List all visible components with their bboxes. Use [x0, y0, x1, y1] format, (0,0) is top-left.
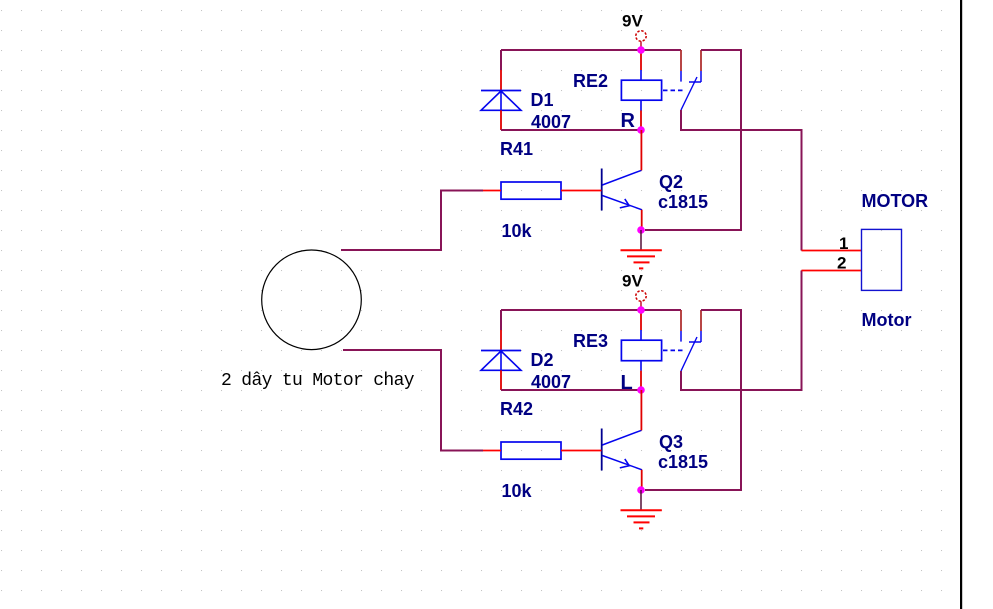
svg-text:D1: D1: [531, 90, 554, 110]
svg-text:Q3: Q3: [659, 432, 683, 452]
diode D2: [481, 351, 521, 371]
relay RE2 blade: [681, 77, 697, 110]
wire 9V rail bottom: [501, 309, 681, 311]
wire RE2 blade to motor pin1: [681, 110, 802, 251]
resistor R42: [483, 442, 602, 459]
svg-text:Q2: Q2: [659, 172, 683, 192]
transistor Q2: [602, 169, 642, 211]
wire Q2 emitter pin: [641, 210, 643, 230]
ground below Q2: [621, 230, 662, 268]
svg-text:R: R: [621, 110, 636, 132]
svg-text:c1815: c1815: [658, 452, 708, 472]
relay coil RE3: [621, 330, 684, 371]
diode D1: [481, 91, 521, 111]
svg-text:RE2: RE2: [573, 71, 608, 91]
wire input B from circle to R42: [343, 350, 483, 451]
svg-text:RE3: RE3: [573, 331, 608, 351]
wire Q2 collector pin: [640, 130, 642, 170]
svg-text:Motor: Motor: [862, 310, 912, 330]
relay RE3 contact A pin: [680, 310, 682, 342]
relay RE3 contact B pin: [689, 310, 701, 342]
junction node L: [637, 386, 645, 394]
wire Q3 collector pin: [640, 390, 642, 430]
junction node emitter Q3: [637, 486, 645, 494]
wire D1 bottom lead: [500, 110, 502, 130]
svg-text:2: 2: [837, 254, 846, 273]
junction node 9V bottom: [637, 306, 645, 314]
speaker circle: [262, 250, 362, 350]
svg-text:9V: 9V: [622, 272, 643, 291]
relay RE2 contact B pin: [689, 50, 701, 82]
svg-text:9V: 9V: [622, 12, 643, 31]
wire D2 top lead: [500, 310, 502, 351]
resistor R41: [483, 182, 602, 199]
wire RE3 blade to motor pin2: [681, 271, 802, 391]
motor connector pins: [802, 251, 862, 271]
svg-text:10k: 10k: [502, 221, 533, 241]
relay RE2 contact A pin: [680, 50, 682, 82]
sheet border: [960, 0, 962, 609]
svg-text:MOTOR: MOTOR: [862, 191, 929, 211]
svg-text:2 dây tu Motor chay: 2 dây tu Motor chay: [221, 371, 415, 391]
svg-text:R42: R42: [500, 399, 533, 419]
relay coil RE2: [621, 70, 684, 111]
svg-text:c1815: c1815: [658, 192, 708, 212]
wire coil RE2 top pin: [640, 50, 642, 70]
transistor Q3: [602, 429, 642, 471]
junction node R: [637, 126, 645, 134]
wire coil RE3 bottom pin: [640, 371, 642, 390]
relay RE3 blade: [681, 337, 697, 371]
power port 9V bottom terminal: [636, 291, 646, 310]
wire top right loop to ground: [645, 50, 741, 230]
wire coil RE2 bottom pin: [640, 111, 642, 131]
svg-text:R41: R41: [500, 139, 533, 159]
wire net L horizontal: [501, 389, 641, 391]
wire bottom right loop to ground: [645, 310, 741, 490]
wire D1 top lead: [500, 50, 502, 91]
svg-text:10k: 10k: [502, 481, 533, 501]
wire D2 bottom lead: [500, 370, 502, 390]
junction node 9V top: [637, 46, 645, 54]
svg-text:1: 1: [839, 234, 848, 253]
power port 9V top terminal: [636, 31, 646, 50]
junction node emitter Q2: [637, 226, 645, 234]
wire Q3 emitter pin: [641, 470, 643, 490]
motor connector box: [862, 229, 902, 290]
wire net R horizontal: [501, 129, 641, 131]
wire 9V rail top: [501, 49, 681, 51]
svg-text:D2: D2: [531, 350, 554, 370]
svg-text:L: L: [621, 372, 633, 394]
ground below Q3: [621, 490, 662, 528]
wire coil RE3 top pin: [640, 310, 642, 330]
wire input A from circle to R41: [341, 191, 483, 251]
